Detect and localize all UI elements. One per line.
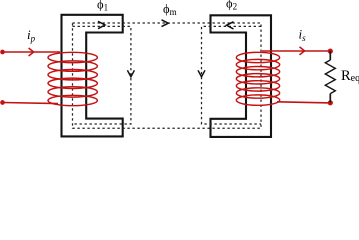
svg-text:ϕ2: ϕ2 <box>226 0 237 11</box>
arrow phim middle (right-pointing) <box>162 20 169 27</box>
wire resistor bottom stub <box>329 94 331 103</box>
terminal dot primary bottom <box>0 100 5 105</box>
resistor Req zigzag <box>325 60 335 94</box>
arrow phi1 top (right-pointing) <box>98 21 105 28</box>
terminal dot primary top <box>0 50 5 55</box>
wire primary top <box>3 51 61 53</box>
coil primary (6 turns) <box>48 52 97 105</box>
core right (C-core opening left) <box>211 15 272 137</box>
arrow phi2 top (left-pointing) <box>227 22 234 29</box>
svg-text:ϕ1: ϕ1 <box>97 0 108 13</box>
arrow current is <box>300 47 305 55</box>
flux phi-m loop (mutual flux, dashed) <box>73 23 262 128</box>
wire primary bottom <box>3 103 59 104</box>
arrow phi1 right side (down-pointing) <box>127 70 134 77</box>
flux phi-1 loop (primary leakage, dashed) <box>73 26 131 124</box>
svg-text:is: is <box>299 27 307 44</box>
wire secondary bottom <box>277 102 330 103</box>
node dot secondary top <box>328 49 333 54</box>
svg-text:ip: ip <box>27 27 36 44</box>
wire resistor top stub <box>329 51 331 60</box>
flux phi-2 loop (secondary leakage, dashed) <box>202 26 262 124</box>
arrow phi2 left side (down-pointing) <box>198 70 205 77</box>
svg-text:ϕm: ϕm <box>163 2 177 17</box>
svg-text:Req: Req <box>341 68 359 84</box>
wire secondary top <box>262 50 330 52</box>
core left (C-core opening right) <box>62 15 123 137</box>
coil secondary (7 turns) <box>236 52 279 105</box>
node dot secondary bottom <box>328 100 333 105</box>
arrow current ip <box>29 48 34 56</box>
